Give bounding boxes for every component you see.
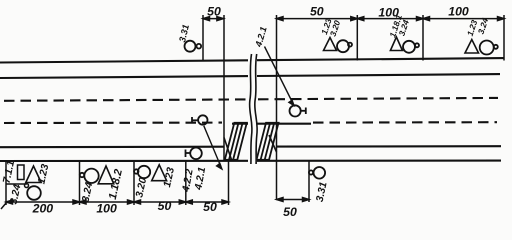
svg-text:200: 200 — [32, 202, 54, 216]
wire shelf line bottom box 1 — [6, 183, 27, 185]
wire dashed lane line lower — [4, 121, 497, 124]
island hatched bar left of break — [225, 123, 247, 160]
sign triangle 1.23 box A — [324, 38, 337, 51]
sign 4.2.2 at bottom road edge circle with mount — [186, 148, 202, 160]
wire bridge left edge extension line — [223, 15, 225, 161]
wire diagonal taper mark right — [269, 135, 277, 152]
wire bottom boxes left edge — [5, 161, 7, 205]
wire dimension line top left 50 — [203, 18, 223, 20]
sign circle 3.20 box A — [337, 40, 352, 52]
wire extension line top right end — [503, 15, 505, 61]
svg-text:50: 50 — [158, 199, 172, 213]
wire extension line top divider 2 — [422, 15, 424, 61]
wire bridge right edge extension line — [276, 15, 278, 200]
break symbol wavy lines — [248, 54, 257, 164]
sign 3.31 top left circle with mount — [185, 41, 202, 52]
sign 3.31 bottom right circle with mount — [309, 167, 325, 179]
wire arrow tail slash bottom left — [1, 203, 7, 210]
sign 4.2.1 on median right of break circle with mount — [290, 105, 306, 116]
wire extension line sign 3.31 top left — [202, 15, 204, 61]
sign triangle 1.18.2 bottom box 2 — [98, 166, 114, 184]
sign plate 7.1.1 bottom box 1 — [18, 165, 25, 180]
svg-text:100: 100 — [96, 202, 117, 216]
wire road top outer edge line — [0, 60, 249, 62]
wire bottom boxes divider 1 — [79, 161, 81, 205]
wire road top inner edge line — [0, 76, 249, 78]
wire dashed lane line upper — [4, 98, 498, 101]
wire dimension line bottom right 50 — [277, 199, 310, 201]
svg-text:50: 50 — [207, 5, 221, 19]
sign triangle 1.23 bottom box 1 — [26, 166, 41, 183]
svg-text:50: 50 — [283, 205, 297, 219]
wire road bottom outer edge line — [0, 160, 249, 162]
sign 4.2.1 on median left of break circle with mount — [192, 115, 208, 124]
wire extension line bottom right 50 — [308, 161, 310, 202]
wire dimension line bottom 200 100 50 50 — [6, 201, 229, 203]
wire island top solid segment — [232, 123, 249, 125]
svg-text:50: 50 — [310, 5, 324, 19]
sign circle 3.24 bottom box 2 — [80, 169, 99, 183]
sign circle 3.24 box B — [403, 41, 419, 53]
wire bottom boxes right edge — [228, 161, 230, 205]
mount knob bottom box 1 — [25, 184, 29, 188]
wire leader from left median sign to label 4.2.1 bottom — [204, 126, 222, 169]
sign circle 3.24 bottom box 1 — [27, 186, 41, 200]
sign triangle 1.23 bottom box 3 — [152, 165, 167, 181]
wire extension line top divider 1 — [356, 15, 358, 61]
island hatched bar right of break — [257, 123, 279, 160]
sign circle 3.24 box C — [480, 41, 498, 55]
sign triangle 1.18.1 box B — [390, 37, 402, 51]
sign circle 3.20 bottom box 3 — [134, 166, 150, 178]
wire bottom boxes divider 2 — [133, 161, 135, 205]
wire dimension line top right 50 100 100 — [277, 18, 505, 20]
wire road bottom inner edge line — [0, 146, 224, 149]
wire diagonal taper mark left — [224, 138, 232, 160]
wire bottom boxes divider 3 — [185, 161, 187, 205]
wire leader from label 4.2.1 top to right median sign — [265, 47, 295, 106]
sign triangle 1.23 box C — [465, 40, 479, 54]
svg-text:50: 50 — [203, 200, 217, 214]
svg-text:100: 100 — [448, 5, 469, 19]
